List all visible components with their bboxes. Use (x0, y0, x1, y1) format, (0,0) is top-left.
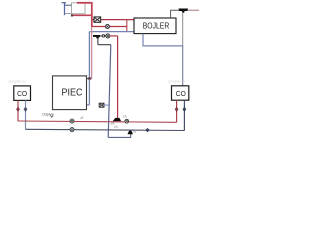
radiator circuit box CO right (172, 86, 189, 100)
junction foot on dark bus (loop end) (127, 131, 133, 135)
pump on dark bus at x=72 (70, 128, 74, 132)
pump on red bus at x=126.8 (125, 119, 129, 123)
wire: element to vessel top (65, 4, 72, 6)
wire: red stub down to blue line (126, 20, 128, 32)
furnace box PIEC (53, 76, 87, 110)
valve (red diamond) on CO left red drop (16, 107, 19, 112)
dark return bus (bottom) (26, 129, 185, 130)
wire: dark drop from CO right (183, 100, 185, 130)
wire: loop-under below dark bus (108, 132, 131, 138)
boiler tank BOJLER (134, 18, 176, 34)
wire: blue drop from boiler bottom (143, 34, 183, 46)
valve (dark diamond) on CO right dark drop (183, 107, 186, 112)
heating element symbol (blue, left of vessel) (62, 3, 67, 16)
wire: red vertical long drop (117, 36, 119, 119)
wire: blue main run to boiler (89, 31, 133, 33)
pump on red bus at x=72 (70, 119, 74, 123)
valve box with X (94, 17, 101, 22)
wire: slate vertical long drop (108, 45, 111, 138)
wire: element to vessel bottom (65, 13, 72, 15)
expansion vessel box (top-left grey box) (72, 3, 86, 14)
wire: thick red vertical riser (91, 2, 93, 27)
svg-text:7a: 7a (132, 130, 136, 134)
arrow glyph under label (51, 116, 53, 118)
wire: grey elbow boiler top to sensor line (171, 10, 181, 18)
svg-text:BOJLER: BOJLER (143, 22, 170, 31)
wire: blue stub into PIEC right side (87, 104, 90, 106)
wire: blue drop from CO left (25, 100, 27, 129)
wire: black link row y=36 (100, 35, 106, 37)
wire: thick red top run (77, 2, 92, 4)
valve (blue diamond) on CO left blue drop (24, 107, 27, 112)
pump P1 (circle with X) on red row (105, 24, 109, 28)
wire: red drop from CO left (17, 100, 19, 121)
wire: blue vertical down to PIEC (88, 32, 90, 105)
wire: red supply to boiler (row y=19.6) (92, 19, 134, 21)
wire: thick red mid run (72, 14, 92, 16)
wire: red drop from CO right (176, 100, 178, 122)
sensor bulb (black blob) (179, 9, 189, 13)
mixing valve symbol (black T) row y=36 (93, 35, 100, 39)
pump P2 (circle with X) on row y=36 (106, 34, 110, 38)
wire: red row y=26.5 (92, 26, 127, 28)
junction foot on red bus (113, 118, 122, 121)
wire: capillary vertical down right side (182, 12, 184, 46)
wire: grey link east (98, 44, 111, 46)
wire: red row y=36 east (110, 35, 118, 37)
wire: valve stem down (97, 38, 99, 45)
check valve (dark diamond) on return bus (146, 128, 150, 132)
svg-text:CO: CO (176, 91, 187, 98)
valve (red diamond) on CO right red drop (175, 107, 178, 112)
svg-text:grzejniki co: grzejniki co (168, 79, 185, 83)
wire: thermostat to slate vertical (104, 104, 110, 106)
wire: pink return vertical to PIEC (91, 27, 93, 79)
svg-text:M: M (81, 116, 84, 120)
wire: capillary continues to CO right top (182, 46, 184, 86)
junction dot on row y=36 (102, 35, 104, 37)
svg-text:CO: CO (17, 91, 28, 98)
sensor capillary line right (186, 9, 199, 11)
svg-text:grzejniki co: grzejniki co (9, 79, 26, 83)
red supply bus (bottom) (18, 121, 177, 122)
radiator circuit box CO left (14, 86, 31, 101)
thermostat box near furnace bottom (99, 103, 104, 107)
svg-text:PIEC: PIEC (62, 88, 83, 99)
junction: pink to PIEC right side (87, 78, 92, 80)
junction cap at mid run left end (71, 14, 73, 16)
